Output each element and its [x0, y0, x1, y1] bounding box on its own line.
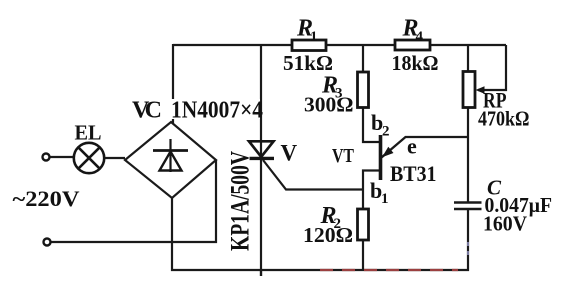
svg-text:51kΩ: 51kΩ — [283, 51, 333, 75]
svg-text:120Ω: 120Ω — [303, 223, 353, 247]
svg-text:1: 1 — [381, 191, 389, 207]
svg-text:~220V: ~220V — [13, 186, 80, 211]
svg-text:1: 1 — [310, 29, 318, 45]
svg-text:VT: VT — [332, 145, 355, 167]
svg-text:e: e — [407, 134, 417, 159]
svg-text:18kΩ: 18kΩ — [392, 51, 439, 75]
svg-text:V: V — [281, 141, 298, 166]
svg-text:160V: 160V — [483, 212, 527, 236]
svg-text:1N4007×4: 1N4007×4 — [171, 98, 263, 124]
svg-text:4: 4 — [416, 29, 424, 45]
svg-text:BT31: BT31 — [390, 161, 437, 186]
svg-text:2: 2 — [382, 124, 390, 140]
svg-text:300Ω: 300Ω — [304, 93, 354, 117]
svg-text:KP1A/500V: KP1A/500V — [226, 151, 255, 251]
svg-text:EL: EL — [75, 121, 102, 145]
svg-text:VC: VC — [132, 98, 162, 124]
svg-text:470kΩ: 470kΩ — [478, 107, 530, 131]
